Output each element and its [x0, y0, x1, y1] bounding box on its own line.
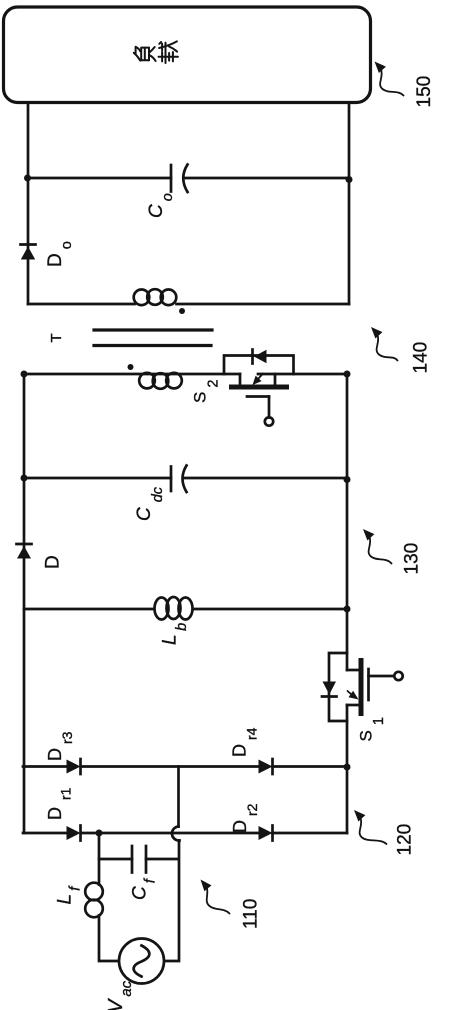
- wire Cf branch: [99, 858, 179, 861]
- wire Cdc rail: [24, 477, 347, 480]
- polarity dot secondary: [179, 308, 185, 314]
- wire right rail lower (upper part): [346, 374, 349, 670]
- svg-text:Dr3: Dr3: [45, 731, 75, 761]
- wire Co rail: [28, 177, 349, 180]
- wire left rail output section: [27, 103, 30, 304]
- inductor Lf: [85, 883, 103, 918]
- wire primary rail left: [24, 373, 240, 376]
- svg-text:Cdc: Cdc: [134, 486, 166, 521]
- arrow to 110: [201, 880, 230, 914]
- load label 负 (glyph): [134, 47, 156, 61]
- arrow to 120: [354, 810, 387, 844]
- node dot input left branch: [96, 830, 103, 837]
- arrow to 150: [375, 62, 404, 96]
- load label 载 (glyph): [159, 41, 178, 63]
- transistor S2 MOSFET: [229, 374, 289, 426]
- wire left rail lower: [23, 374, 26, 833]
- svg-text:Dr2: Dr2: [230, 803, 260, 833]
- diode Dr4: [259, 759, 273, 774]
- load box 150: [4, 7, 371, 103]
- diode D: [17, 544, 32, 559]
- wire right rail output section: [348, 103, 351, 304]
- svg-text:120: 120: [395, 824, 416, 856]
- diode Dr3: [67, 759, 81, 774]
- arrow to 140: [371, 327, 398, 361]
- diode Dr2: [259, 826, 273, 841]
- wire right rail lower (below S1): [346, 705, 349, 833]
- svg-text:140: 140: [411, 342, 432, 374]
- capacitor Cf: [132, 846, 146, 873]
- wire hop over Dr1 rail: [172, 827, 180, 841]
- svg-text:S2: S2: [191, 380, 222, 403]
- transistor S1 body-diode loop: [329, 653, 347, 721]
- svg-text:Dr4: Dr4: [230, 727, 260, 757]
- node dot primary left: [21, 371, 28, 378]
- node dot Cdc left: [21, 475, 28, 482]
- node dot Cdc right: [344, 476, 351, 483]
- svg-text:S1: S1: [357, 717, 388, 741]
- transformer T primary winding: [139, 373, 182, 389]
- svg-text:Do: Do: [45, 241, 75, 267]
- svg-text:T: T: [48, 333, 65, 342]
- polarity dot primary: [128, 364, 134, 370]
- arrow to 130: [363, 529, 392, 564]
- svg-text:110: 110: [241, 899, 262, 929]
- node dot primary right: [344, 371, 351, 378]
- source Vac: [119, 939, 164, 984]
- wire Dr1/Dr2 rail: [23, 832, 347, 835]
- transformer T core: [94, 330, 212, 346]
- diode Dr1: [67, 826, 81, 841]
- svg-text:Lb: Lb: [160, 623, 191, 645]
- transformer T secondary winding: [134, 289, 177, 305]
- svg-text:Co: Co: [146, 193, 176, 218]
- node dot Dr4 right: [344, 764, 351, 771]
- inductor Lb: [155, 597, 193, 620]
- wire output bottom rail: [28, 303, 349, 306]
- node dot Lb right: [344, 606, 351, 613]
- capacitor Cdc: [171, 466, 187, 493]
- svg-text:D: D: [43, 555, 64, 569]
- wire AC branch right vertical: [177, 767, 180, 827]
- svg-text:Cf: Cf: [130, 877, 159, 900]
- transistor S2 body diode: [253, 350, 267, 364]
- wire AC branch left vertical: [99, 833, 118, 961]
- wire Lb rail: [24, 608, 347, 611]
- svg-text:Lf: Lf: [55, 885, 84, 905]
- svg-text:Vac: Vac: [105, 980, 135, 1010]
- wire Dr3/Dr4 rail: [23, 765, 347, 768]
- transistor S1 MOSFET: [347, 658, 403, 716]
- svg-text:150: 150: [414, 76, 435, 108]
- svg-text:Dr1: Dr1: [45, 787, 74, 820]
- wire primary rail right: [258, 373, 347, 376]
- svg-text:130: 130: [402, 543, 423, 575]
- transistor S2 body-diode loop: [224, 356, 294, 375]
- capacitor Co: [171, 165, 188, 193]
- wire AC branch right lower: [165, 841, 179, 962]
- transistor S1 body diode: [322, 682, 337, 697]
- node dot output left: [24, 175, 31, 182]
- diode Do: [21, 245, 36, 260]
- node dot output right: [346, 176, 353, 183]
